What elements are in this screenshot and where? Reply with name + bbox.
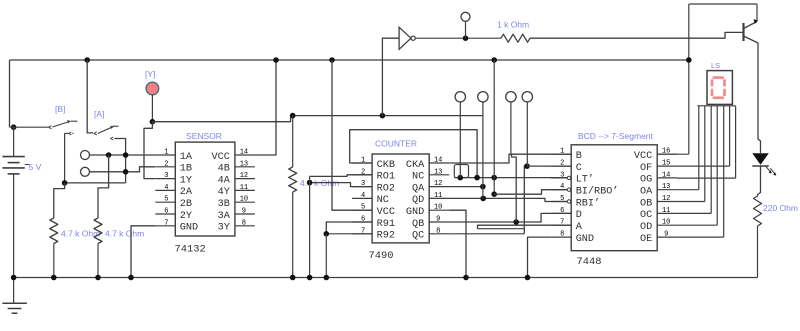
pin bubbles 7448 LT BI RBI [567,176,570,203]
wire CKA box [454,165,468,178]
display LS 7-segment [707,71,732,105]
terminal top probe [461,12,470,38]
op 74132 quad NAND (SENSOR) U1 [155,131,255,256]
svg-text:RO1: RO1 [377,172,395,183]
svg-text:OA: OA [640,187,653,198]
svg-text:GND: GND [406,207,424,218]
wire R5 to rail [757,226,759,278]
svg-text:4Y: 4Y [218,187,230,198]
wire 7490 QA to CKB loop [350,130,477,178]
resistor R4 1k Ohm [501,34,530,42]
node QD tap [480,196,486,202]
svg-text:74132: 74132 [175,244,206,256]
op 7448 BCD to 7-seg (U3) [551,131,677,268]
svg-text:4A: 4A [218,175,231,186]
wire 7490 R91 [326,222,372,234]
op NOT gate U3 [399,27,415,49]
label LS [711,61,720,70]
lamp Y [146,82,159,95]
wire lamp to 1Y [144,122,155,179]
wire emitter up [756,4,758,22]
wire B riser [512,154,517,222]
wire CKA line [449,154,571,163]
svg-text:OG: OG [640,175,652,186]
label R1 4.7 k Ohm [61,229,100,239]
node NOT input tap [380,113,386,119]
wire QC riser [524,166,527,234]
svg-text:2A: 2A [180,187,193,198]
switch J1 [A] [94,126,119,140]
node rail 74132 gnd [128,275,134,281]
svg-text:B: B [576,151,582,162]
wire OB lead [677,201,705,203]
svg-text:2B: 2B [180,199,192,210]
node t1 b [123,152,129,158]
svg-text:GND: GND [180,223,198,234]
LED D1 [752,153,776,175]
svg-text:QD: QD [412,195,424,206]
wire 7490 reset RO1 [310,175,373,177]
svg-text:1B: 1B [180,164,192,175]
wire R9x to rail [325,234,327,278]
svg-text:OD: OD [640,222,652,233]
svg-text:RBI’: RBI’ [576,197,600,209]
node lamp junction [150,119,156,125]
node rail R3 [290,275,296,281]
wire OC lead [677,212,711,214]
label R2 4.7 k Ohm [105,229,144,239]
svg-text:CKA: CKA [406,160,425,171]
svg-text:7448: 7448 [577,256,602,268]
svg-text:VCC: VCC [212,152,230,163]
label 5 V [29,162,42,172]
wire reset to rail [309,176,311,277]
svg-text:VCC: VCC [377,207,395,218]
node QA tap [480,184,486,190]
wire +5 riser [493,60,495,194]
wire 7490 R92 [326,233,372,235]
resistor R5 220 Ohm [754,196,762,226]
svg-text:BCD --> 7-Segment: BCD --> 7-Segment [578,131,654,141]
svg-text:1Y: 1Y [180,175,192,186]
wire OF lead [677,165,729,167]
label [B] [55,104,65,114]
svg-text:1A: 1A [180,152,193,163]
svg-text:4B: 4B [218,164,230,175]
svg-text:4.7 k Ohm: 4.7 k Ohm [105,229,144,239]
node t1 a [106,152,112,158]
wire terminal2 to pin 1B [90,167,155,172]
svg-text:SENSOR: SENSOR [186,131,222,141]
wire OA lead [677,189,699,191]
svg-text:GND: GND [576,234,594,245]
ground symbol [2,278,27,314]
wire net switch outputs [65,182,126,184]
wire display segment leads [699,106,736,237]
wire +5V top rail [10,59,690,61]
wire GND 74132 pin7 to rail [131,226,155,278]
wire QB line [449,213,571,222]
svg-text:BI/RBO’: BI/RBO’ [576,186,619,198]
node QB tap [513,219,519,225]
terminal probe QA2 [478,92,488,116]
wire BI/RBO line [494,190,571,195]
transistor Q1 NPN [744,19,759,43]
svg-text:[Y]: [Y] [145,69,155,79]
node rail to switch A [84,57,90,63]
node rail 7490 gnd [463,275,469,281]
wire 7490 VCC pin5 [332,60,372,210]
svg-text:COUNTER: COUNTER [375,139,417,149]
terminal input 2 [81,167,90,176]
node rail R1 [51,275,57,281]
node lamp net resistor tap [290,113,296,119]
wire 7490 GND [449,210,466,277]
node test terminal top [463,35,469,41]
svg-text:NC: NC [377,195,389,206]
svg-text:A: A [576,222,583,233]
wire QD-RBI line [449,198,571,201]
node rail reset [307,275,313,281]
wire OE lead [677,236,724,238]
svg-text:VCC: VCC [634,151,652,162]
wire left drop from rail [9,60,11,127]
wire LT line [454,177,571,179]
node LT +5 [491,175,497,181]
wire QA line [449,186,483,188]
svg-text:LS: LS [711,61,720,70]
wire VCC 74132 pin14 to rail [255,60,276,155]
wire display header bar [697,105,735,107]
wire 7490 reset RO2 [310,183,373,187]
wire NOT output [415,37,501,39]
wire QC line [449,233,524,235]
svg-text:1 k Ohm: 1 k Ohm [497,20,529,30]
terminal probe QA1 [455,92,465,178]
terminal probe QC [522,92,532,167]
battery V1 5V [2,127,29,277]
svg-text:QA: QA [412,183,425,194]
wire lamp stem [151,95,153,122]
svg-text:3A: 3A [218,211,231,222]
node rail 7490 vcc [329,57,335,63]
wire 7448 VCC [657,153,689,155]
op 7490 decade counter (COUNTER) U2 [352,139,449,263]
svg-text:2Y: 2Y [180,211,192,222]
terminal probe QB [506,92,516,155]
resistor R3 4.7k Ohm [289,116,297,278]
svg-text:C: C [576,163,582,174]
label 1 k Ohm [497,20,529,30]
label [Y] [145,69,155,79]
resistor R2 4.7k Ohm [94,155,109,278]
node bottom rail left [11,275,17,281]
svg-text:3Y: 3Y [218,223,230,234]
wire switch B lower contact drop [64,133,66,183]
node reset junction [307,180,313,186]
wire NOT input riser [382,38,399,115]
label [A] [94,109,104,119]
svg-text:OB: OB [640,198,652,209]
wire OD lead [677,224,717,226]
svg-text:CKB: CKB [377,160,395,171]
wire LED to R5 [758,166,761,196]
node battery top junction [11,124,17,130]
node BI tap [491,191,497,197]
wire C line [527,165,571,167]
svg-text:[B]: [B] [55,104,65,114]
svg-text:QB: QB [412,219,424,230]
svg-text:QC: QC [412,231,424,242]
wire terminal1 to pin 1A [90,154,156,156]
node rail 74132 vcc [273,57,279,63]
node rail R9x [324,275,330,281]
node LT loop [474,175,480,181]
svg-text:D: D [576,210,582,221]
node t2 [123,169,129,175]
wire rail to switch A [87,60,93,133]
switch J2 [B] [10,120,78,135]
svg-text:NC: NC [412,172,424,183]
terminal input 1 [81,151,90,160]
wire top line [689,3,757,5]
wire A lower link [478,228,525,230]
svg-text:5 V: 5 V [29,162,42,172]
svg-text:LT’: LT’ [576,174,594,186]
wire switch A lower contact [116,139,126,183]
wire lamp-QA riser [482,116,484,199]
svg-text:R92: R92 [377,231,395,242]
node LT c1 [458,175,464,181]
svg-text:220 Ohm: 220 Ohm [763,203,798,213]
wire ground bottom rail [14,277,758,279]
svg-text:OE: OE [640,234,652,245]
svg-text:RO2: RO2 [377,183,395,194]
node switch net left [62,180,68,186]
wire collector to LED [758,43,761,153]
label R3 4.7 k Ohm [300,178,339,188]
wire lamp net [152,116,483,122]
resistor R1 4.7k Ohm [50,183,65,278]
svg-text:7490: 7490 [369,250,394,262]
node C tap [524,163,530,169]
label 220 Ohm [763,203,798,213]
wire rail up to top [688,4,690,154]
node rail R2 [95,275,101,281]
wire OG lead [677,177,735,179]
svg-text:[A]: [A] [94,109,104,119]
wire A line [478,225,572,229]
svg-text:OC: OC [640,210,652,221]
wire 7448 GND [528,237,552,277]
node R9x junction [324,231,330,237]
node rail right [686,57,692,63]
node rail 7448 gnd [525,275,531,281]
node rail +5 riser [491,57,497,63]
wire R4 to base [530,32,744,38]
svg-text:3B: 3B [218,199,230,210]
svg-text:OF: OF [640,163,652,174]
svg-text:R91: R91 [377,219,395,230]
